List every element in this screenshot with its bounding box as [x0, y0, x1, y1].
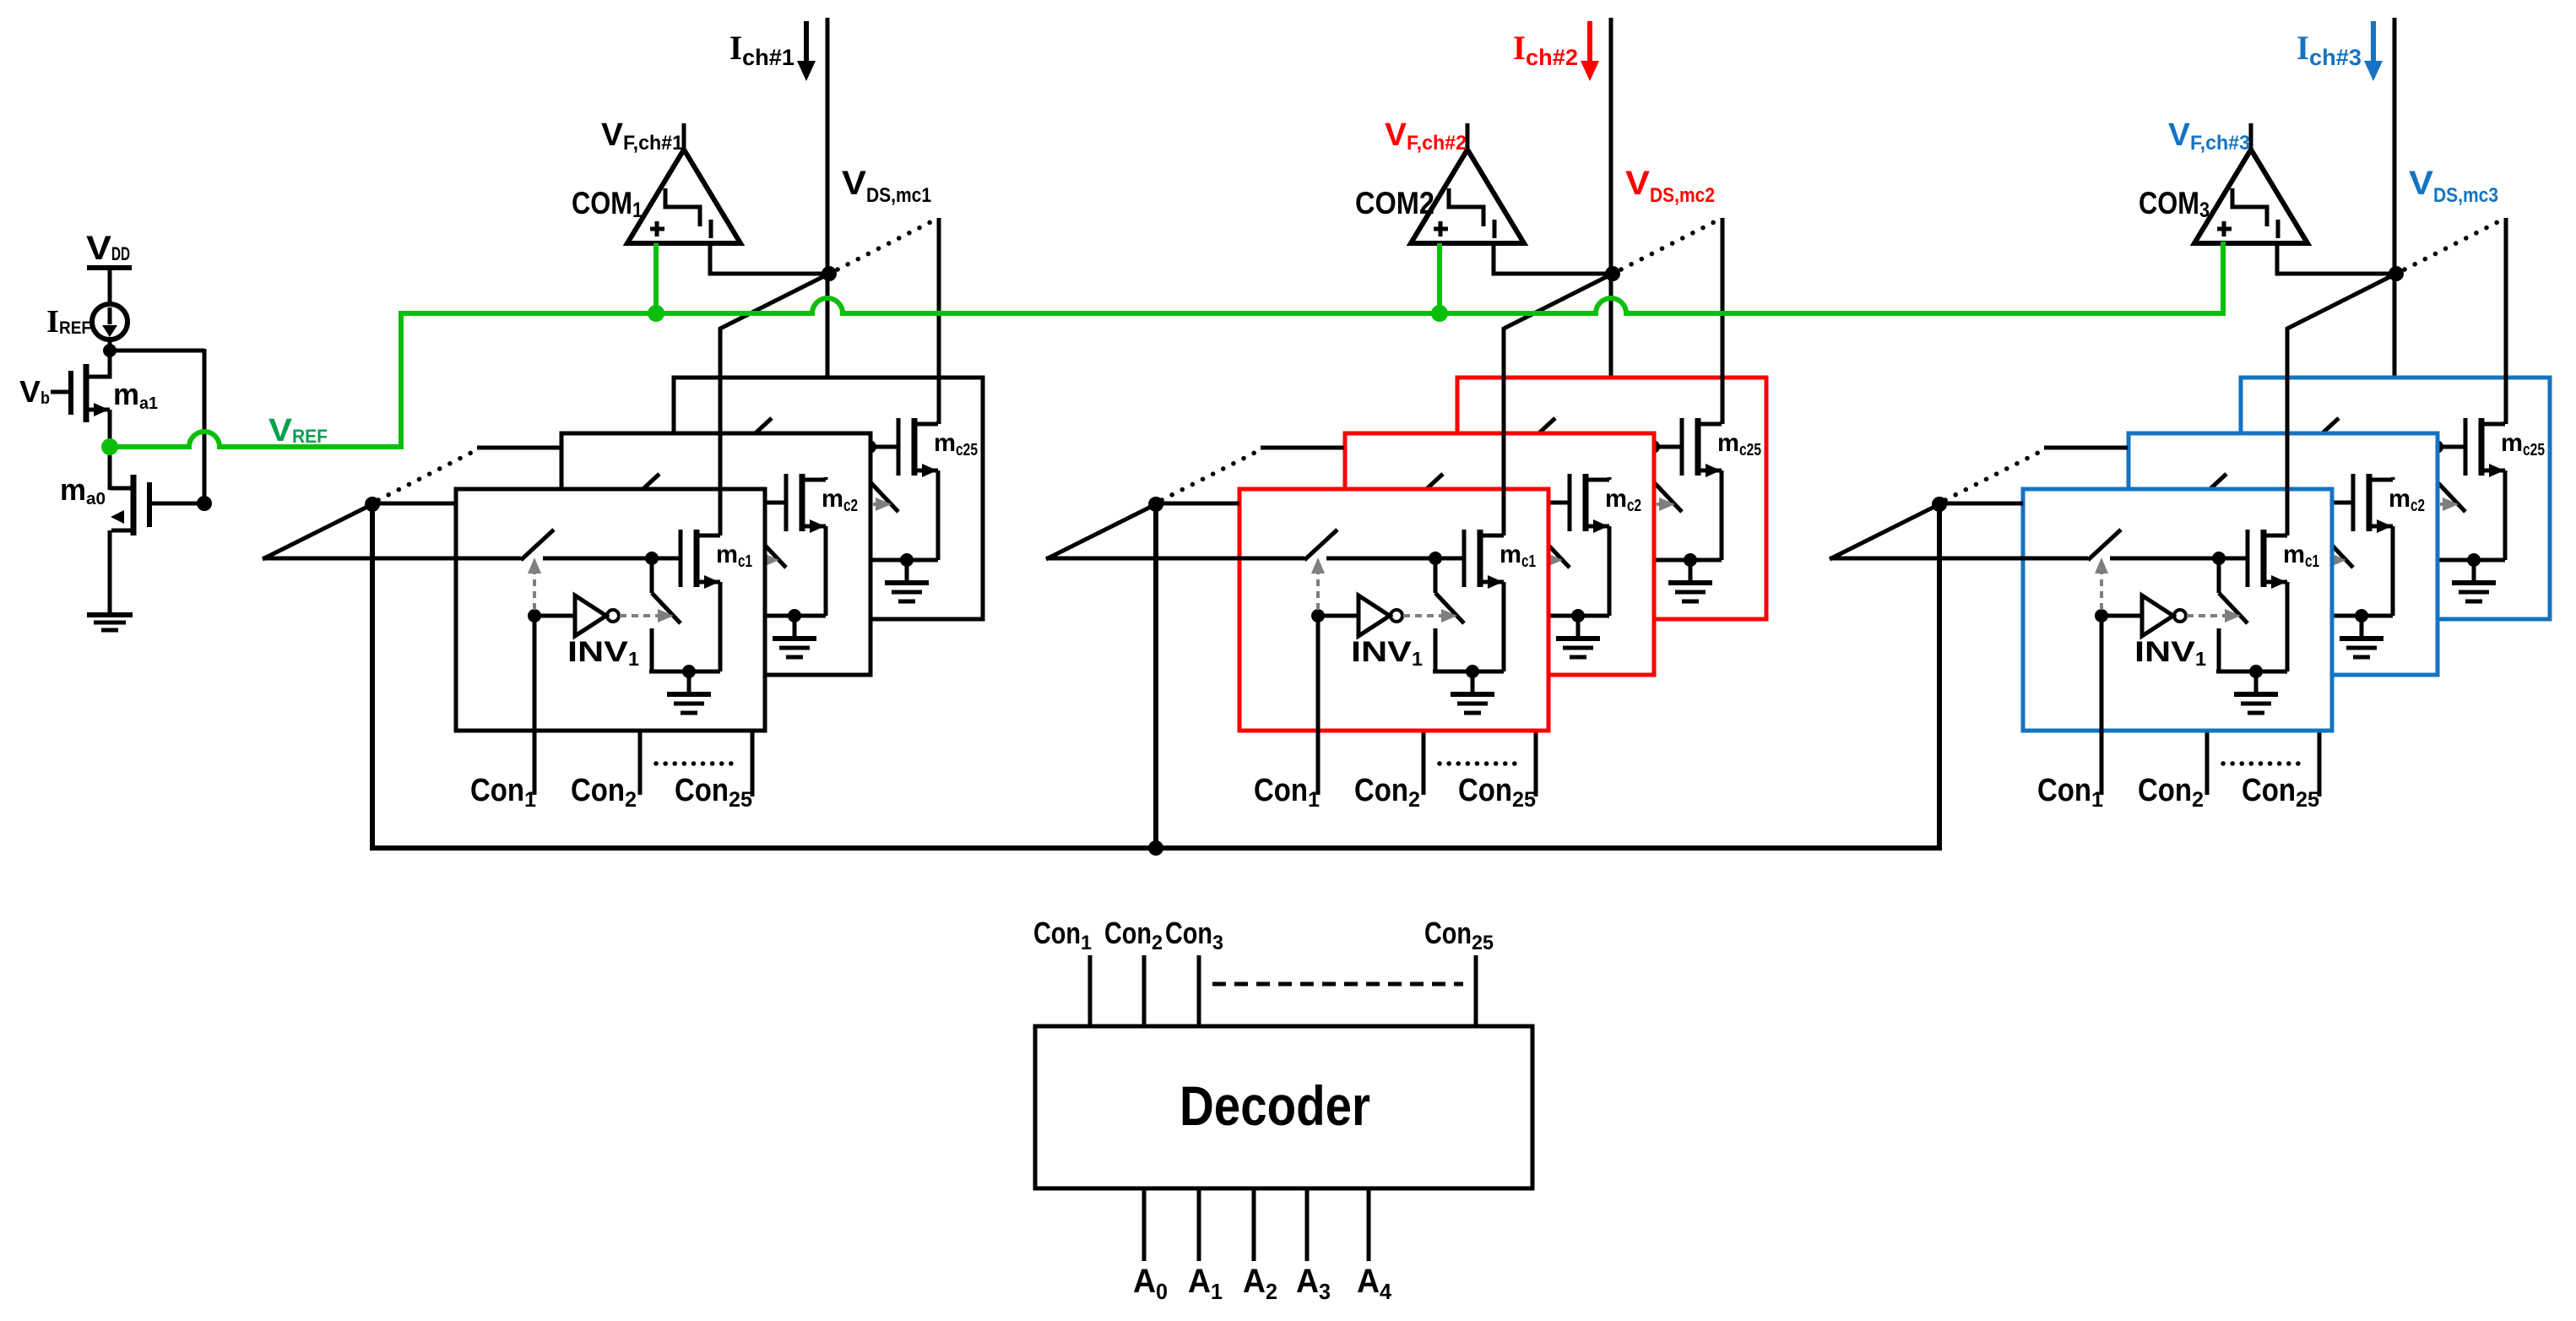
wire gate node to c2 gate — [2324, 501, 2353, 505]
transistor c1 — [1464, 530, 1504, 589]
fan diagonal to cell c1 switch (ch#1) — [263, 504, 372, 559]
control arrow to S2 (cell c25) — [2405, 497, 2459, 511]
wire c2 source to cell rail — [824, 526, 828, 616]
wire inverter input (cell c25) — [1536, 503, 1576, 507]
switch S1 of cell c1 — [456, 530, 652, 560]
ground (reference branch) — [87, 615, 133, 630]
fan node N2 (ch#3) — [1932, 497, 1947, 512]
control arrow to S1 (cell c2) — [2200, 502, 2214, 554]
wire channel node to cell c1 drain — [2287, 274, 2396, 535]
control line Con (c1 cell) — [533, 616, 537, 795]
wire to cell c1 switch (ch#3) — [1830, 557, 2023, 561]
wire c2 drain elbow — [1608, 477, 1612, 480]
gate node of cell c2 — [2318, 496, 2331, 509]
control arrow to S2 (cell c1) — [1403, 609, 1457, 622]
transistor c25 — [1682, 418, 1722, 477]
control line Con (c25 cell) — [2318, 504, 2322, 796]
cell rail of c2 — [755, 614, 826, 618]
channel node ch#3 — [2389, 266, 2404, 281]
transistor c2 — [2353, 474, 2393, 533]
transistor c1 — [2248, 530, 2287, 589]
control arrow to S2 (cell c2) — [2292, 553, 2346, 567]
ground (cell c25) — [1668, 560, 1712, 601]
switch S1 of cell c1 — [1239, 530, 1435, 560]
control arrow to S1 (cell c1) — [1311, 557, 1325, 610]
wire ma1 source to ma0 drain — [108, 410, 112, 490]
control arrow to S2 (cell c2) — [1509, 553, 1563, 567]
control line Con (c2 cell) — [1422, 560, 1426, 795]
control bus riser (ch#3) — [1937, 504, 1942, 848]
ellipsis drain fan (ch#3) — [2405, 221, 2499, 269]
ground (cell c1) — [1451, 671, 1494, 713]
wire c2 drain elbow — [824, 477, 828, 480]
rail node of c25 — [1684, 553, 1697, 567]
wire fan node to cell c1 edge (ch#3) — [1939, 502, 2023, 506]
inverter INV1 (cell c2) — [681, 540, 724, 580]
wire ma0 source to ground — [108, 530, 112, 615]
svg-text:Decoder: Decoder — [1180, 1074, 1370, 1137]
wire COM1 inverting input to channel node — [710, 243, 827, 274]
inverter input node (cell c1) — [528, 609, 541, 622]
comparator COM1 — [627, 123, 740, 243]
transistor ma0 (mirrored) — [110, 475, 204, 535]
inverter INV1 (cell c25) — [793, 484, 837, 525]
wire channel node to cell c1 drain — [1504, 274, 1613, 535]
ellipsis Con (ch#1) — [656, 761, 732, 766]
inverter INV1 (cell c2) — [2248, 540, 2291, 580]
inverter input node (cell c25) — [746, 497, 759, 511]
switch S1 of cell c2 — [1345, 474, 1541, 504]
wire to cell c1 switch (ch#1) — [263, 557, 456, 561]
gate node of cell c1 — [1429, 552, 1442, 565]
inverter INV1 (cell c25) — [2360, 484, 2404, 525]
decoder output Con3 — [1197, 955, 1201, 1026]
gate node of cell c2 — [751, 496, 764, 509]
wire gate node to c25 gate — [870, 445, 898, 449]
control arrow to S1 (cell c1) — [528, 557, 541, 610]
inverter input node (cell c1) — [2095, 609, 2108, 622]
decoder input A2 — [1252, 1188, 1256, 1261]
fan node N2 (ch#2) — [1148, 497, 1163, 512]
ellipsis fan (ch#1) — [378, 453, 471, 500]
inverter input node (cell c25) — [1529, 497, 1543, 511]
ground (cell c2) — [1556, 616, 1600, 657]
inverter INV1 (cell c1) — [2142, 595, 2186, 636]
control line Con (c2 cell) — [638, 560, 643, 795]
wire c1 drain elbow — [719, 533, 723, 535]
transistor c2 — [786, 474, 826, 533]
current arrow Ich#1 — [797, 21, 816, 81]
switch S1 of cell c1 — [2023, 530, 2219, 560]
cell rail of c1 — [2216, 670, 2287, 674]
rail node of c25 — [2467, 553, 2481, 567]
ellipsis drain fan (ch#1) — [838, 221, 932, 269]
wire node A to gate-feedback line — [110, 349, 204, 353]
control line Con (c25 cell) — [1534, 504, 1538, 796]
node A (IREF/ma1 drain/gate-line junction) — [103, 344, 117, 357]
wire IREF to node A — [108, 340, 112, 363]
comparator COM2 — [1411, 123, 1524, 243]
control arrow to S1 (cell c1) — [2095, 557, 2108, 610]
switch cell c2 boundary box — [561, 433, 870, 675]
inverter INV1 (cell c1) — [1359, 595, 1402, 636]
fan diagonal to cell c1 switch (ch#2) — [1046, 504, 1156, 559]
ellipsis fan (ch#3) — [1945, 453, 2038, 500]
rail node of c25 — [900, 553, 914, 567]
current arrow Ich#2 — [1581, 21, 1599, 81]
wire gate node to c1 gate — [1435, 557, 1464, 561]
wire gate node to c2 gate — [1541, 501, 1570, 505]
transistor c25 — [898, 418, 938, 477]
ellipsis fan (ch#2) — [1162, 453, 1255, 500]
inverter input node (cell c1) — [1311, 609, 1325, 622]
fan diagonal to cell c1 switch (ch#3) — [1830, 504, 1939, 559]
switch cell c1 boundary box — [456, 489, 765, 731]
channel node ch#2 — [1605, 266, 1620, 281]
wire gate-feedback vertical — [203, 349, 207, 505]
control line Con (c1 cell) — [1316, 616, 1321, 795]
node VREF/COM1 (green) — [648, 305, 664, 322]
cell rail of c25 — [1651, 558, 1722, 563]
control bus riser (ch#2) — [1153, 504, 1158, 848]
svg-text:COM3: COM3 — [2139, 186, 2210, 222]
wire inverter input (cell c2) — [640, 558, 681, 563]
wire c1 source to cell rail — [2286, 582, 2290, 671]
control arrow to S1 (cell c2) — [633, 502, 647, 554]
ellipsis Con (ch#3) — [2223, 761, 2299, 766]
switch cell c1 boundary box — [2023, 489, 2332, 731]
wire inverter input (cell c2) — [2207, 558, 2248, 563]
wire COM3 inverting input to channel node — [2277, 243, 2394, 274]
switch cell c25 boundary box — [674, 378, 983, 619]
rail node of c1 — [1466, 665, 1479, 678]
gate node of cell c1 — [2212, 552, 2226, 565]
switch S1 of cell c25 — [2241, 418, 2437, 448]
wire inverter input (cell c1) — [1318, 614, 1359, 618]
wire inverter input (cell c2) — [1424, 558, 1464, 563]
wire c25 source to cell rail — [2503, 470, 2508, 560]
rail node of c1 — [682, 665, 696, 678]
rail node of c2 — [1571, 609, 1585, 622]
switch cell c2 boundary box — [2129, 433, 2438, 675]
decoder output Con25 — [1474, 955, 1478, 1026]
cell rail of c25 — [867, 558, 938, 563]
switch S1 of cell c2 — [2129, 474, 2324, 504]
node VREF at ma1 source (green) — [101, 438, 118, 455]
wire gate node to c1 gate — [652, 557, 681, 561]
transistor c1 — [681, 530, 720, 589]
ground (cell c25) — [2452, 560, 2496, 601]
inverter input node (cell c2) — [2200, 553, 2214, 567]
control bus wire — [370, 845, 1942, 851]
wire c2 drain elbow — [2391, 477, 2395, 480]
decoder box — [1035, 1026, 1532, 1188]
current source IREF — [92, 304, 127, 340]
ground (cell c1) — [667, 671, 711, 713]
control arrow to S1 (cell c25) — [1529, 446, 1543, 498]
wire inverter input (cell c25) — [2319, 503, 2360, 507]
switch S1 of cell c2 — [561, 474, 757, 504]
switch cell c25 boundary box — [2241, 378, 2550, 619]
fan node N2 (ch#1) — [365, 497, 380, 512]
wire inverter input (cell c1) — [534, 614, 575, 618]
control arrow to S1 (cell c25) — [746, 446, 759, 498]
ground (cell c2) — [2340, 616, 2383, 657]
node VREF/COM2 (green) — [1431, 305, 1448, 322]
gate node of cell c25 — [1646, 440, 1660, 454]
gate node of cell c25 — [2430, 440, 2443, 454]
net VREF (green wire) — [110, 242, 2223, 447]
wire COM2 inverting input to channel node — [1494, 243, 1610, 274]
decoder input A1 — [1197, 1188, 1201, 1261]
rail node of c2 — [2355, 609, 2368, 622]
wire channel node to cell c1 drain — [720, 274, 829, 535]
switch S2 of cell c25 — [2437, 447, 2465, 560]
cell rail of c2 — [1538, 614, 1609, 618]
switch S2 of cell c1 — [1435, 558, 1464, 671]
wire c1 source to cell rail — [1502, 582, 1506, 671]
wire inverter input (cell c1) — [2101, 614, 2142, 618]
inverter input node (cell c2) — [1417, 553, 1430, 567]
comparator COM3 — [2194, 123, 2308, 243]
wire fan node to cell c1 edge (ch#1) — [372, 502, 456, 506]
wire VREF to COM2 + input (green) — [1437, 243, 1442, 313]
switch cell c1 boundary box — [1239, 489, 1548, 731]
control line Con (c1 cell) — [2100, 616, 2104, 795]
ground (cell c25) — [885, 560, 929, 601]
channel line Ich#2 — [1609, 18, 1613, 481]
wire c25 drain elbow — [1720, 421, 1724, 424]
ellipsis drain fan (ch#2) — [1621, 221, 1716, 269]
wire cell c25 drain riser (ch#3) — [2504, 218, 2508, 424]
decoder output Con2 — [1142, 955, 1147, 1026]
bus junction (ch#2) — [1148, 840, 1163, 856]
cell rail of c2 — [2322, 614, 2393, 618]
wire gate node to c25 gate — [1653, 445, 1682, 449]
channel node ch#1 — [822, 266, 837, 281]
control bus riser (ch#1) — [370, 504, 375, 848]
gate node of cell c25 — [863, 440, 876, 454]
wire c1 drain elbow — [2286, 533, 2290, 535]
transistor c25 — [2465, 418, 2505, 477]
wire gate node to c2 gate — [757, 501, 786, 505]
power rail VDD — [87, 265, 132, 270]
switch S1 of cell c25 — [1457, 418, 1653, 448]
switch S2 of cell c25 — [870, 447, 898, 560]
wire c1 drain elbow — [1502, 533, 1506, 535]
wire c25 source to cell rail — [936, 470, 941, 560]
switch S1 of cell c25 — [674, 418, 870, 448]
inverter INV1 (cell c1) — [575, 595, 619, 636]
inverter INV1 (cell c2) — [1464, 540, 1508, 580]
cell rail of c1 — [649, 670, 720, 674]
wire to cell c1 switch (ch#2) — [1046, 557, 1239, 561]
gate node of cell c2 — [1534, 496, 1548, 509]
decoder input A3 — [1305, 1188, 1310, 1261]
wire VDD to IREF source — [108, 268, 112, 304]
current arrow Ich#3 — [2364, 21, 2383, 81]
decoder output Con1 — [1088, 955, 1093, 1026]
switch S2 of cell c1 — [2219, 558, 2248, 671]
svg-text:COM2: COM2 — [1355, 186, 1434, 220]
control line Con (c25 cell) — [751, 504, 755, 796]
wire to cell c2 switch (ch#1) — [477, 446, 561, 450]
wire to cell c2 switch (ch#2) — [1261, 446, 1344, 450]
decoder input A0 — [1142, 1188, 1147, 1261]
wire c1 source to cell rail — [719, 582, 723, 671]
channel line Ich#1 — [826, 18, 830, 481]
transistor ma1 — [51, 363, 110, 422]
svg-text:COM1: COM1 — [572, 186, 643, 222]
wire VREF to COM1 + input (green) — [653, 243, 659, 313]
cell rail of c25 — [2434, 558, 2505, 563]
inverter input node (cell c2) — [633, 553, 647, 567]
switch S2 of cell c25 — [1653, 447, 1682, 560]
wire c25 drain elbow — [936, 421, 941, 424]
switch S2 of cell c2 — [1541, 503, 1570, 616]
switch cell c2 boundary box — [1345, 433, 1654, 675]
inverter input node (cell c25) — [2313, 497, 2326, 511]
ellipsis Con (ch#2) — [1440, 761, 1516, 766]
switch S2 of cell c2 — [2324, 503, 2353, 616]
wire c2 source to cell rail — [2391, 526, 2395, 616]
switch S2 of cell c1 — [652, 558, 681, 671]
wire fan node to cell c1 edge (ch#2) — [1156, 502, 1239, 506]
control arrow to S1 (cell c25) — [2313, 446, 2326, 498]
wire inverter input (cell c25) — [752, 503, 793, 507]
wire cell c25 drain riser (ch#2) — [1721, 218, 1725, 424]
channel line Ich#3 — [2393, 18, 2397, 481]
control line Con (c2 cell) — [2205, 560, 2210, 795]
switch cell c25 boundary box — [1457, 378, 1766, 619]
control arrow to S2 (cell c1) — [620, 609, 674, 622]
control arrow to S1 (cell c2) — [1417, 502, 1430, 554]
control arrow to S2 (cell c1) — [2187, 609, 2241, 622]
ground (cell c2) — [773, 616, 816, 657]
gate node of cell c1 — [645, 552, 659, 565]
wire c25 source to cell rail — [1720, 470, 1724, 560]
wire c25 drain elbow — [2503, 421, 2508, 424]
node B (ma0 gate / control-line junction) — [197, 496, 212, 511]
wire cell c25 drain riser (ch#1) — [937, 218, 941, 424]
wire c2 source to cell rail — [1608, 526, 1612, 616]
control arrow to S2 (cell c25) — [838, 497, 892, 511]
control arrow to S2 (cell c25) — [1621, 497, 1675, 511]
wire gate node to c25 gate — [2437, 445, 2465, 449]
transistor c2 — [1570, 474, 1609, 533]
inverter INV1 (cell c25) — [1576, 484, 1620, 525]
decoder input A4 — [1367, 1188, 1371, 1261]
ellipsis decoder outputs — [1212, 982, 1463, 987]
wire gate node to c1 gate — [2219, 557, 2248, 561]
switch S2 of cell c2 — [757, 503, 786, 616]
rail node of c2 — [788, 609, 801, 622]
ground (cell c1) — [2234, 671, 2278, 713]
cell rail of c1 — [1433, 670, 1504, 674]
rail node of c1 — [2249, 665, 2263, 678]
wire to cell c2 switch (ch#3) — [2044, 446, 2128, 450]
control arrow to S2 (cell c2) — [725, 553, 779, 567]
